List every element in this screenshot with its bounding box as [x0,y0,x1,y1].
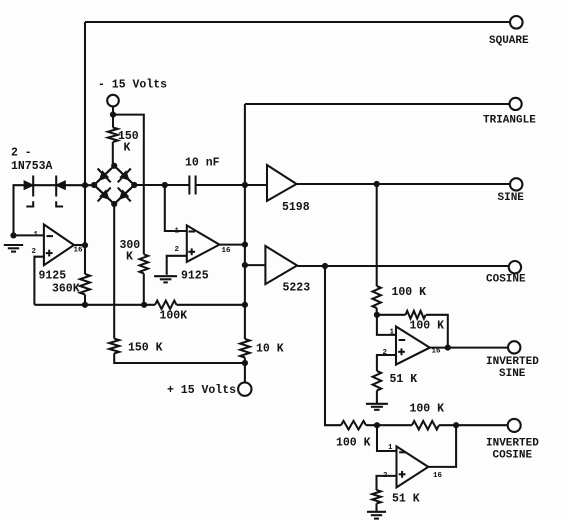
svg-text:100 K: 100 K [336,437,371,450]
resistor 51K sine [373,371,382,391]
wire 300K to rail [143,273,145,304]
node inv-sine sum [374,312,380,318]
wire 51K cos to ground [375,504,377,512]
ground G1 [4,244,23,246]
op-amp U2 9125 [187,225,220,262]
node -15V junction [110,112,116,118]
wire 5223 input [245,264,266,266]
wire U5 output [430,347,508,349]
resistor 100K cosine input [341,421,366,430]
svg-text:1: 1 [388,444,393,452]
svg-text:K: K [126,251,133,264]
ground G4 [367,511,386,513]
svg-text:16: 16 [222,247,232,255]
node bus U2 out [242,242,248,248]
wire 150K to 10K bottom [114,353,245,363]
node U5 out [445,345,451,351]
wire U2 pin2 [167,256,187,275]
wire main left vertical [84,22,86,274]
svg-text:360K: 360K [52,283,80,296]
node rail 300K [141,302,147,308]
svg-text:9125: 9125 [39,270,67,283]
svg-text:51 K: 51 K [390,373,418,386]
svg-text:INVERTED: INVERTED [486,356,539,368]
node U1 output [82,242,88,248]
node rail bus [242,302,248,308]
svg-text:9125: 9125 [181,270,209,283]
terminal COSINE [509,261,521,273]
wire 51K to ground [376,391,378,404]
wire 100K to node [376,308,378,315]
wire 360K to rail [84,295,86,305]
terminal INVERTED SINE [508,341,520,353]
svg-text:100 K: 100 K [410,320,445,333]
svg-text:TRIANGLE: TRIANGLE [483,115,536,127]
wire feedback rail [34,304,245,306]
node ground junction A [10,232,16,238]
svg-text:100 K: 100 K [410,403,445,416]
svg-text:16: 16 [433,472,443,480]
node bridge left [91,182,97,188]
wire -15V stub [112,106,114,127]
wire sine fb right [426,315,448,348]
node bus 5223 [242,262,248,268]
node bridge top [111,163,117,169]
wire U5 pin1 [377,315,396,335]
wire -15V bypass [113,115,144,255]
svg-text:100 K: 100 K [392,286,427,299]
wire sine line [297,183,510,185]
svg-text:150 K: 150 K [128,342,163,355]
wire U6 pin1 [377,425,397,451]
node bridge right [131,182,137,188]
op-amp U6 inverted cosine [397,446,429,487]
op-amp U5 inverted sine [396,327,430,365]
diode CR2 1N753A [57,182,65,189]
resistor 10K [240,339,250,358]
wire U1 output [74,244,85,246]
svg-text:1: 1 [34,231,39,239]
wire U1 pin2 [34,257,44,305]
op-amp U1 9125 [44,225,74,266]
resistor 100K cosine feedback [412,421,439,430]
wire 150K to bridge top [112,142,114,166]
wire 5198 input [245,184,267,186]
svg-text:SQUARE: SQUARE [489,35,529,47]
terminal SQUARE [510,16,523,29]
node cosine tap [322,263,328,269]
node inv-cos out [453,422,459,428]
wire triangle rail [245,103,510,105]
wire U1 pin1 [14,234,44,236]
wire U5 pin2 [377,355,396,371]
wire square rail [85,21,510,23]
resistor 100K rail [155,301,177,309]
svg-text:51 K: 51 K [392,493,420,506]
node cap bus [242,182,248,188]
svg-text:2 -: 2 - [11,147,32,160]
wire bridge to cap [134,184,189,186]
op-amp U3 5198 [267,165,297,201]
diode CR1 1N753A [25,182,33,189]
node sine tap [374,181,380,187]
node 10K bottom [242,360,248,366]
svg-text:100K: 100K [160,310,188,323]
svg-text:1N753A: 1N753A [11,160,53,173]
wire cosine line [297,265,509,267]
wire sine fb left [377,314,406,316]
terminal INVERTED COSINE [508,419,521,432]
resistor 100K sine input [373,286,381,308]
wire bridge bottom vertical [113,204,115,339]
svg-text:K: K [124,142,131,155]
resistor 300K [140,254,149,273]
resistor 100K sine feedback [406,311,426,319]
wire cap to bus [196,184,245,186]
wire U6 pin2 [377,476,397,490]
node inv-cos sum [374,422,380,428]
svg-text:- 15 Volts: - 15 Volts [98,79,167,92]
diode bridge [94,166,134,204]
svg-text:COSINE: COSINE [486,274,526,286]
wire zener branch [14,185,95,235]
wire U6 output [428,425,456,467]
svg-text:5223: 5223 [283,282,311,295]
svg-text:10 K: 10 K [256,343,284,356]
resistor 51K cosine [372,490,381,504]
wire to inv-cos node [366,424,412,426]
svg-text:16: 16 [74,247,84,255]
wire 10K bottom [244,358,246,383]
wire sine drop [376,184,378,286]
svg-text:COSINE: COSINE [493,450,533,462]
svg-text:SINE: SINE [498,192,525,204]
wire U2 output [219,244,245,246]
node left vertical junction [82,182,88,188]
wire inv-cos out line [439,424,508,426]
svg-text:10 nF: 10 nF [185,156,220,169]
svg-text:5198: 5198 [282,201,310,214]
svg-text:SINE: SINE [499,368,526,380]
terminal SINE [510,178,522,190]
wire bus vertical [244,104,246,339]
capacitor 10nF [188,176,190,195]
terminal TRIANGLE [509,98,521,110]
node rail 360K [82,302,88,308]
svg-text:1: 1 [390,329,395,337]
ground G3 [366,403,388,405]
wire cosine drop [325,266,341,425]
svg-text:+ 15 Volts: + 15 Volts [167,384,236,397]
node bridge bottom [111,201,117,207]
resistor 360K [80,274,90,295]
wire U2 pin1 [165,185,187,231]
resistor 150K upper [108,128,118,143]
svg-text:INVERTED: INVERTED [486,438,539,450]
svg-text:1: 1 [175,227,180,235]
svg-text:2: 2 [32,248,37,256]
op-amp U4 5223 [265,246,297,284]
terminal +15V [238,382,251,395]
resistor 150K lower [109,339,119,354]
svg-text:2: 2 [175,246,180,254]
node cap left [162,182,168,188]
ground G2 [154,275,177,277]
terminal -15V [107,95,119,107]
